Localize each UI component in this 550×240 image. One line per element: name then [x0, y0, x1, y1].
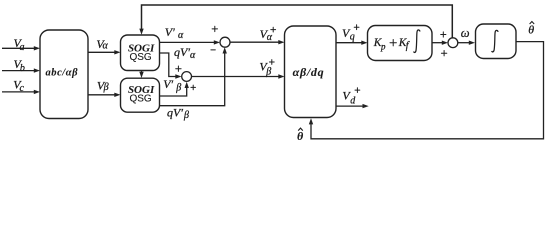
block integrator	[476, 24, 517, 59]
sign plus omega bottom	[441, 51, 446, 56]
svg-text:αβ/dq: αβ/dq	[293, 65, 325, 79]
block ab/dq transform	[285, 26, 337, 118]
svg-text:β: β	[183, 110, 189, 121]
label Vbeta+	[259, 60, 274, 78]
wire Valpha+	[230, 40, 285, 44]
wire Vc	[2, 90, 40, 94]
summing junction omega	[448, 38, 458, 48]
block SOGI-QSG 2	[121, 78, 160, 112]
label V'beta	[163, 77, 181, 93]
svg-text:abc/αβ: abc/αβ	[46, 67, 79, 78]
svg-text:d: d	[350, 96, 356, 107]
svg-text:qV′: qV′	[167, 105, 183, 119]
wire PI to omega sum	[432, 41, 448, 45]
sign plus omega top	[441, 32, 446, 37]
wire omega SOGI1 to SOGI2	[139, 71, 143, 79]
label theta-hat bottom	[297, 128, 304, 143]
wire Vb	[2, 68, 40, 72]
svg-text:α: α	[103, 41, 109, 52]
label theta-hat top	[528, 22, 534, 37]
label qV'beta	[167, 105, 189, 121]
svg-text:c: c	[20, 83, 25, 94]
label Vq+	[342, 25, 359, 43]
sign plus C2 left	[176, 66, 181, 71]
wire omega feedback top	[139, 5, 452, 38]
svg-text:QSG: QSG	[129, 94, 151, 105]
wire Vd+	[336, 104, 369, 108]
wire Vq+	[336, 41, 368, 45]
label Vbeta	[97, 78, 109, 93]
wire qV'alpha	[160, 53, 182, 79]
wire V'beta	[160, 82, 189, 96]
sign minus C1 bottom	[211, 49, 215, 51]
label V'alpha	[165, 25, 184, 41]
svg-text:θ: θ	[297, 129, 304, 143]
wire Va	[2, 46, 40, 50]
svg-text:β: β	[265, 67, 271, 78]
label Vb	[14, 57, 25, 74]
label qV'alpha	[174, 45, 196, 61]
label Vd+	[342, 88, 359, 107]
wire Vbeta	[88, 93, 121, 97]
sign plus C2 bottom	[191, 85, 196, 90]
wire qV'beta	[160, 47, 227, 105]
svg-text:QSG: QSG	[129, 52, 151, 63]
svg-text:β: β	[103, 82, 109, 93]
svg-text:q: q	[350, 31, 355, 42]
svg-text:qV′: qV′	[174, 45, 190, 59]
wire omega to integrator	[458, 41, 475, 45]
label Valpha+	[260, 27, 276, 43]
svg-text:θ: θ	[528, 23, 534, 37]
label Vc	[13, 77, 24, 94]
svg-text:α: α	[267, 32, 273, 43]
svg-text:a: a	[20, 42, 25, 53]
wire Valpha	[88, 50, 121, 54]
svg-text:p: p	[380, 41, 386, 51]
label Kp+Kf integral	[373, 30, 420, 53]
svg-text:V′: V′	[165, 25, 175, 39]
svg-text:V′: V′	[163, 77, 173, 91]
summing junction C1	[220, 37, 230, 47]
svg-text:α: α	[190, 50, 196, 61]
summing junction C2	[182, 72, 192, 82]
svg-text:α: α	[178, 30, 184, 41]
label integral	[492, 30, 498, 52]
wire Vbeta+	[192, 74, 285, 78]
svg-text:f: f	[406, 41, 410, 52]
svg-text:β: β	[175, 83, 181, 94]
sign plus C1 left	[212, 26, 217, 31]
svg-text:b: b	[20, 63, 25, 74]
block abc/ab transform	[40, 30, 88, 119]
label Va	[14, 36, 25, 53]
block SOGI-QSG 1	[121, 35, 160, 71]
block PI Kp+Kf integral	[368, 26, 433, 61]
wire V'alpha	[160, 40, 221, 44]
label Valpha	[96, 37, 108, 52]
svg-text:ω: ω	[461, 26, 470, 40]
wire theta-hat output feedback	[309, 42, 544, 139]
